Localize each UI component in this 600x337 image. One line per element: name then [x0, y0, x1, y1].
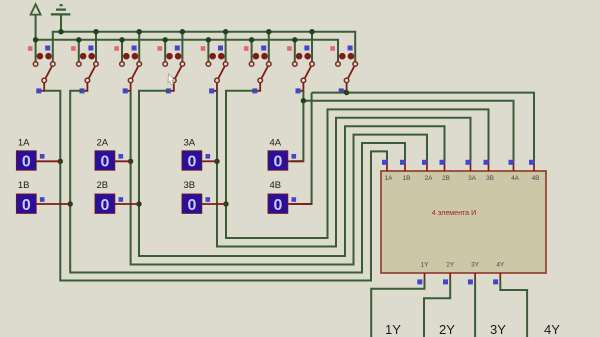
- U1 pin 3Y (bottom): [468, 262, 480, 285]
- wire ground bus (upper, y=32) with drops to switch right contacts: [53, 32, 355, 62]
- junction on net 3B: [223, 201, 228, 206]
- svg-text:2Y: 2Y: [439, 322, 455, 337]
- svg-text:1Y: 1Y: [421, 262, 430, 269]
- junction on net 1A: [58, 159, 63, 164]
- IC U1 : 4 AND elements (4 элемента И): [381, 171, 546, 273]
- svg-text:2B: 2B: [97, 180, 109, 191]
- switch SW7 (SPDT): [287, 46, 314, 94]
- svg-text:3Y: 3Y: [490, 322, 506, 337]
- svg-text:1Y: 1Y: [385, 322, 401, 337]
- U1 pin 2B (top): [440, 160, 450, 182]
- switch SW5 (SPDT): [201, 46, 228, 94]
- svg-text:3A: 3A: [184, 138, 196, 149]
- logic probe 4A: [268, 138, 303, 171]
- U1 pin 3B (top): [484, 160, 494, 182]
- svg-text:3A: 3A: [468, 175, 477, 182]
- U1 pin 1B (top): [400, 160, 410, 182]
- switch SW6 (SPDT): [244, 46, 271, 94]
- wire net 1A: [44, 91, 387, 281]
- U1 pin 4B (top): [529, 160, 539, 182]
- logic probe 3B: [182, 180, 226, 214]
- U1 pin 4Y (bottom): [493, 262, 505, 285]
- svg-text:0: 0: [100, 154, 109, 171]
- svg-text:4 элемента И: 4 элемента И: [432, 209, 476, 217]
- svg-text:4Y: 4Y: [544, 322, 560, 337]
- junction dots on lower bus: [33, 37, 298, 42]
- logic probe 2A: [95, 138, 131, 171]
- switch SW8 (SPDT): [330, 46, 357, 94]
- junction on net 4A: [301, 98, 306, 103]
- svg-text:4B: 4B: [532, 175, 540, 182]
- junction on net 4B: [344, 90, 349, 95]
- svg-text:4A: 4A: [270, 138, 282, 149]
- svg-text:4A: 4A: [511, 175, 520, 182]
- U1 pin 3A (top): [466, 160, 477, 182]
- svg-text:1B: 1B: [18, 180, 30, 191]
- U1 pin 2A (top): [422, 160, 433, 182]
- switch SW2 (SPDT): [71, 46, 98, 94]
- wire net 1Y: [371, 280, 424, 337]
- svg-text:0: 0: [187, 154, 196, 171]
- svg-text:0: 0: [22, 197, 31, 214]
- wire net 3Y: [474, 280, 476, 337]
- logic probe 1A: [16, 138, 60, 171]
- ground symbol: [51, 5, 71, 32]
- wire net 2B: [139, 91, 445, 256]
- svg-text:2B: 2B: [442, 175, 450, 182]
- svg-text:0: 0: [273, 197, 282, 214]
- svg-text:2Y: 2Y: [446, 262, 455, 269]
- power symbol VCC (arrow): [31, 4, 41, 62]
- svg-text:1A: 1A: [385, 175, 394, 182]
- wire net 3A: [217, 91, 471, 247]
- junction on net 3A: [214, 159, 219, 164]
- svg-text:3Y: 3Y: [471, 262, 480, 269]
- switch SW4 (SPDT): [158, 46, 185, 94]
- svg-text:1A: 1A: [18, 138, 30, 149]
- wire net 4B (switch SW8 tap, chip pin 4B, probe 4B): [291, 91, 534, 204]
- U1 pin 2Y (bottom): [443, 262, 455, 285]
- logic probe 3A: [182, 138, 217, 171]
- svg-text:4Y: 4Y: [496, 262, 505, 269]
- wire net 2A: [131, 91, 427, 265]
- svg-text:2A: 2A: [97, 138, 109, 149]
- svg-text:0: 0: [100, 197, 109, 214]
- switch SW1 (SPDT): [28, 46, 55, 94]
- wire net 2Y: [424, 280, 450, 337]
- svg-text:2A: 2A: [425, 175, 434, 182]
- wire net 4A (switch SW7 column, tap to chip pin 4A): [291, 91, 514, 162]
- svg-text:3B: 3B: [486, 175, 494, 182]
- U1 pin 1A (top): [382, 160, 393, 182]
- wire net 1B: [70, 91, 405, 273]
- logic probe 4B: [268, 180, 312, 214]
- svg-text:0: 0: [273, 154, 282, 171]
- junction on net 1B: [68, 201, 73, 206]
- svg-text:0: 0: [22, 154, 31, 171]
- junction on net 2B: [136, 201, 141, 206]
- wire net 3B: [226, 91, 489, 238]
- mouse cursor (over SW4 lever): [168, 74, 174, 85]
- svg-text:1B: 1B: [403, 175, 411, 182]
- U1 pin 1Y (bottom): [417, 262, 429, 285]
- U1 pin 4A (top): [509, 160, 520, 182]
- svg-text:4B: 4B: [270, 180, 282, 191]
- logic probe 1B: [16, 180, 70, 214]
- junction on net 2A: [128, 159, 133, 164]
- svg-text:3B: 3B: [184, 180, 196, 191]
- logic probe 2B: [95, 180, 139, 214]
- switch SW3 (SPDT): [114, 46, 141, 94]
- wire net 4Y: [500, 280, 527, 337]
- svg-text:0: 0: [187, 197, 196, 214]
- wire power bus (lower, y=40) with drops to switch left contacts: [36, 40, 338, 62]
- junction dots on upper bus (incl. ground tap): [58, 29, 314, 34]
